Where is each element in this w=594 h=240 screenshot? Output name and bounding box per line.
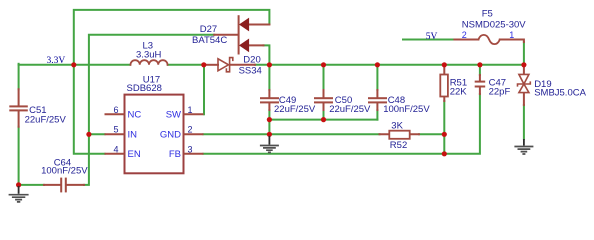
svg-text:FB: FB <box>169 149 181 160</box>
svg-text:SS34: SS34 <box>239 65 262 76</box>
svg-text:GND: GND <box>160 130 181 141</box>
svg-text:2: 2 <box>462 30 467 40</box>
svg-text:D20: D20 <box>243 54 260 65</box>
svg-text:EN: EN <box>128 149 141 160</box>
svg-text:F5: F5 <box>482 9 493 20</box>
svg-text:3K: 3K <box>391 121 403 132</box>
svg-text:SMBJ5.0CA: SMBJ5.0CA <box>534 88 586 99</box>
svg-text:R52: R52 <box>390 140 407 151</box>
svg-text:3.3uH: 3.3uH <box>136 49 161 60</box>
svg-text:SW: SW <box>166 110 181 121</box>
svg-text:D27: D27 <box>200 24 217 35</box>
svg-text:5: 5 <box>113 125 118 135</box>
svg-text:SDB628: SDB628 <box>127 83 162 94</box>
svg-text:22uF/25V: 22uF/25V <box>25 114 67 125</box>
svg-text:100nF/25V: 100nF/25V <box>41 165 88 176</box>
svg-text:5V: 5V <box>426 32 438 42</box>
svg-text:BAT54C: BAT54C <box>192 35 227 46</box>
svg-text:1: 1 <box>509 30 514 40</box>
svg-text:100nF/25V: 100nF/25V <box>383 104 430 115</box>
svg-text:2: 2 <box>188 125 193 135</box>
svg-text:22K: 22K <box>450 86 468 97</box>
svg-text:NC: NC <box>128 110 142 121</box>
svg-text:4: 4 <box>113 144 118 154</box>
svg-text:22pF: 22pF <box>489 86 511 97</box>
svg-text:3: 3 <box>188 144 193 154</box>
svg-text:6: 6 <box>113 105 118 115</box>
svg-text:NSMD025-30V: NSMD025-30V <box>462 19 527 30</box>
svg-text:22uF/25V: 22uF/25V <box>274 104 316 115</box>
svg-text:22uF/25V: 22uF/25V <box>329 104 371 115</box>
svg-text:1: 1 <box>188 105 193 115</box>
svg-text:IN: IN <box>128 130 138 141</box>
svg-text:3.3V: 3.3V <box>47 56 66 66</box>
